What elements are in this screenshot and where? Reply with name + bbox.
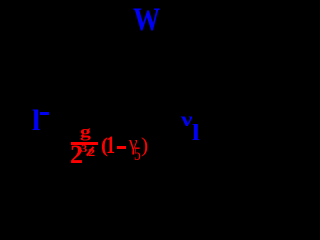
denominator 2 <box>70 142 83 168</box>
exponent digit 3 <box>81 144 87 155</box>
digit 1 <box>106 133 115 158</box>
exponent slash <box>86 147 94 157</box>
subscript 5 <box>134 145 141 164</box>
close paren <box>141 135 148 157</box>
open paren <box>101 135 108 156</box>
label W boson <box>133 4 160 37</box>
subscript l of nu_l <box>192 121 200 144</box>
label neutrino nu <box>181 109 192 130</box>
minus sign <box>117 146 126 149</box>
label lepton l- <box>32 106 40 136</box>
exponent digit 2 <box>88 149 95 159</box>
fraction bar <box>71 142 98 145</box>
gamma <box>129 132 138 154</box>
superscript minus of l- <box>40 112 49 115</box>
coupling numerator g <box>80 124 91 141</box>
